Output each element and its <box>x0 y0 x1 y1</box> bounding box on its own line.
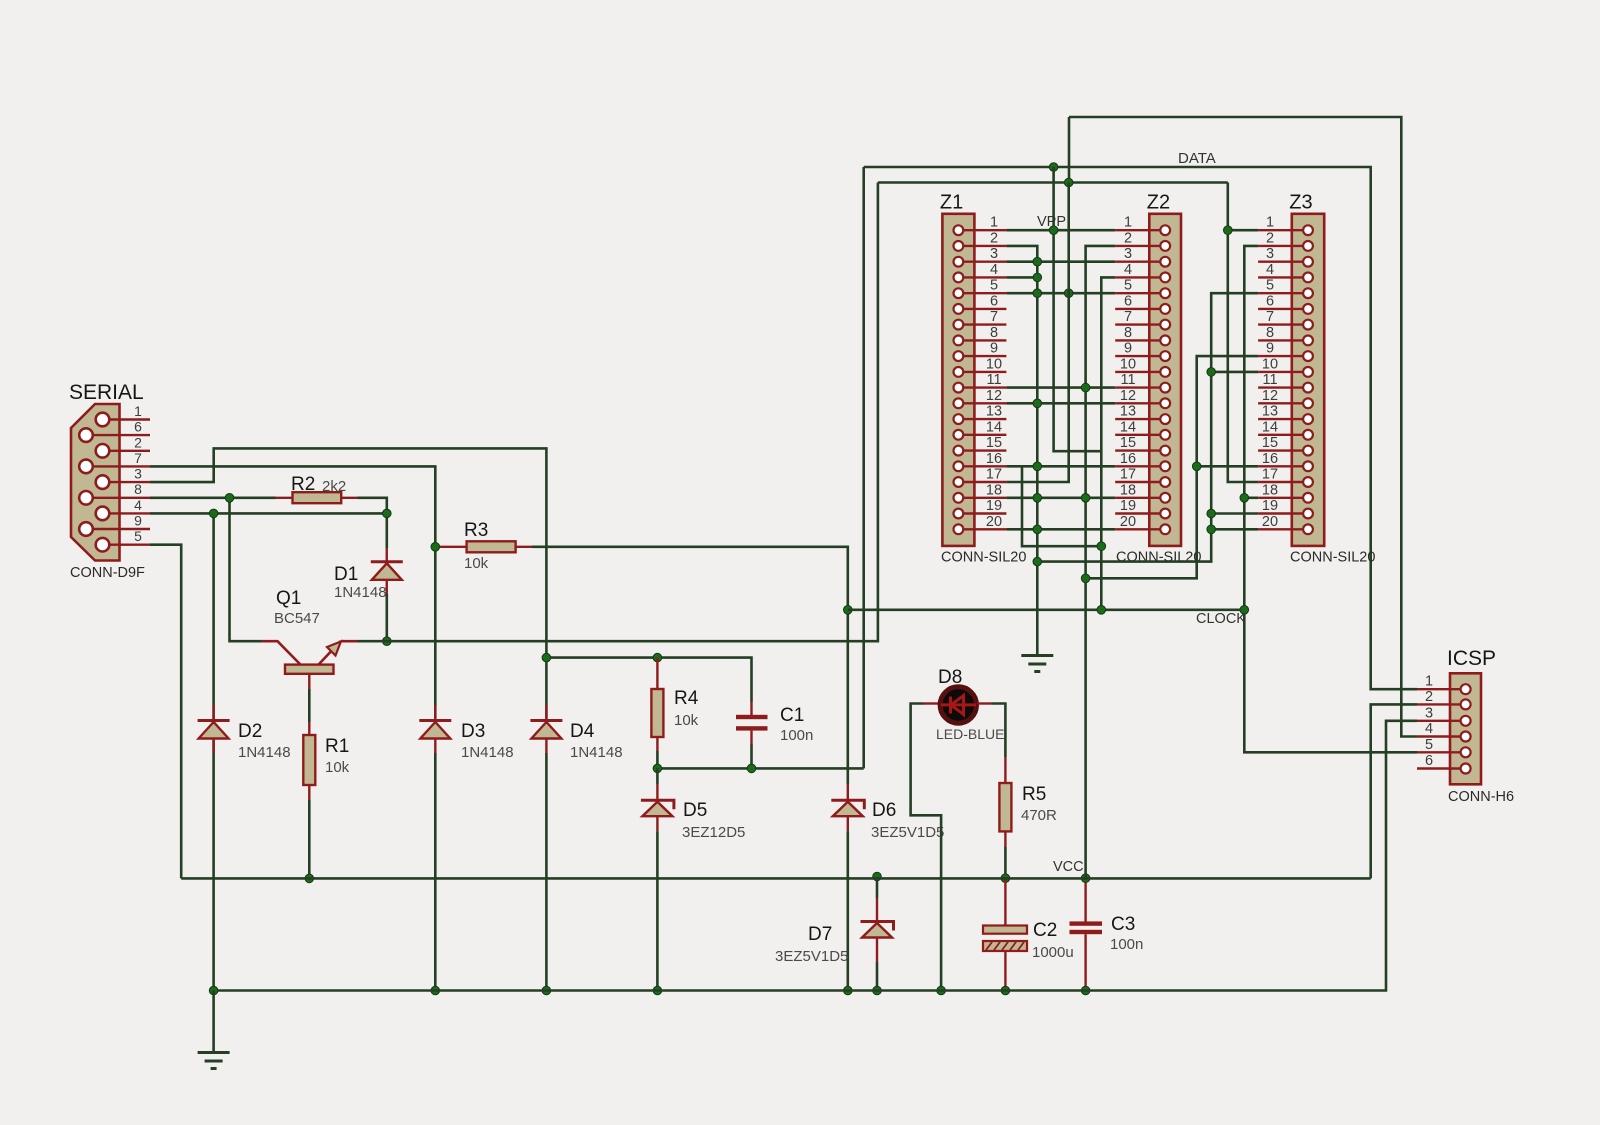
pin 11 of Z2 <box>1115 386 1165 388</box>
wire Z1 pin3 row <box>1006 260 1115 263</box>
pin 3 of Z3 <box>1258 261 1308 263</box>
svg-text:15: 15 <box>986 435 1002 451</box>
svg-text:3: 3 <box>990 246 998 262</box>
svg-text:D2: D2 <box>238 721 262 742</box>
ground symbol below Z1 <box>1021 656 1053 672</box>
junction pin4/D2 column <box>209 509 218 518</box>
pin 3 of Z1 <box>958 261 1006 263</box>
pin 12 of Z3 <box>1258 402 1308 404</box>
svg-text:19: 19 <box>1262 498 1278 514</box>
junction column1101/row546 <box>1097 542 1106 551</box>
capacitor C3 100n <box>1084 878 1086 921</box>
svg-text:18: 18 <box>986 482 1002 498</box>
svg-text:DATA: DATA <box>1178 150 1216 167</box>
svg-text:17: 17 <box>1262 467 1278 483</box>
svg-text:12: 12 <box>1120 388 1136 404</box>
svg-text:1: 1 <box>990 215 998 231</box>
junction C1 bottom <box>747 764 756 773</box>
wire Z1 pin5 row <box>1006 292 1115 295</box>
junction D7/bottom rail <box>873 986 882 995</box>
svg-text:D6: D6 <box>872 800 896 821</box>
wire Z3 pin1 column from top net <box>1228 183 1258 483</box>
pin 1 of ICSP connector <box>1417 688 1466 690</box>
svg-text:ICSP: ICSP <box>1447 647 1496 670</box>
junction R1/VCC rail <box>305 874 314 883</box>
pin 17 of Z3 <box>1258 481 1308 483</box>
pin 18 of Z2 <box>1115 497 1165 499</box>
svg-text:1N4148: 1N4148 <box>334 584 387 601</box>
svg-text:2: 2 <box>1425 689 1433 705</box>
pin 19 of Z2 <box>1115 512 1165 514</box>
wire second top net <box>878 181 1228 184</box>
wire Z1 pin2 to ground column <box>1006 246 1037 655</box>
wire pin16 branch down <box>1022 466 1101 546</box>
svg-text:C3: C3 <box>1111 914 1135 935</box>
wire Z3 pin10 row <box>1211 371 1258 374</box>
svg-text:470R: 470R <box>1021 807 1057 824</box>
svg-text:1N4148: 1N4148 <box>238 744 291 761</box>
wire R2 right to D1 top <box>358 498 387 548</box>
svg-text:6: 6 <box>1425 753 1433 769</box>
junction pin18/ground column <box>1033 494 1042 503</box>
svg-text:9: 9 <box>1124 341 1132 357</box>
svg-text:11: 11 <box>1262 372 1277 388</box>
pin 6 of SERIAL connector <box>86 434 150 436</box>
pin 6 of ICSP connector <box>1417 767 1466 769</box>
wire Z3 pin18 row <box>1244 496 1258 499</box>
capacitor C1 100n <box>750 702 752 715</box>
junction CLOCK row/CLOCK column <box>1240 606 1249 615</box>
svg-text:10k: 10k <box>674 712 699 729</box>
svg-text:D8: D8 <box>938 667 962 688</box>
svg-text:3EZ5V1D5: 3EZ5V1D5 <box>871 824 944 841</box>
pin 1 of Z3 <box>1258 229 1308 231</box>
junction Z3 pin18/CLOCK column <box>1240 494 1249 503</box>
svg-text:15: 15 <box>1120 435 1136 451</box>
resistor R2 <box>276 497 358 499</box>
wire Z1 pin4 row <box>1006 276 1037 279</box>
ground symbol bottom left <box>212 991 215 1053</box>
junction pin5/ground column <box>1033 289 1042 298</box>
svg-text:2: 2 <box>1266 230 1274 246</box>
svg-text:100n: 100n <box>780 727 813 744</box>
junction D3/bottom rail <box>431 986 440 995</box>
diode D3 1N4148 <box>434 705 436 719</box>
zener diode D7 3EZ5V1D5 <box>876 877 879 899</box>
pin 8 of SERIAL connector <box>86 497 150 499</box>
svg-text:8: 8 <box>990 325 998 341</box>
svg-text:D3: D3 <box>461 721 485 742</box>
pin 19 of Z1 <box>958 512 1006 514</box>
pin 9 of SERIAL connector <box>86 528 150 530</box>
pin 7 of Z2 <box>1115 323 1165 325</box>
svg-text:8: 8 <box>1266 325 1274 341</box>
junction C3/bottom rail <box>1081 986 1090 995</box>
pin 4 of Z2 <box>1115 276 1165 278</box>
junction pin18/column 1085 <box>1081 494 1090 503</box>
pin 10 of Z2 <box>1115 371 1165 373</box>
wire R4 bottom row <box>656 751 659 768</box>
diode D2 1N4148 <box>212 705 214 719</box>
svg-text:R4: R4 <box>674 688 699 709</box>
svg-text:R3: R3 <box>464 520 488 541</box>
svg-text:5: 5 <box>1124 278 1132 294</box>
svg-text:10k: 10k <box>325 759 350 776</box>
junction D5/bottom rail <box>653 986 662 995</box>
svg-text:19: 19 <box>986 498 1002 514</box>
svg-text:BC547: BC547 <box>274 610 320 627</box>
pin 2 of Z1 <box>958 245 1006 247</box>
pin 2 of SERIAL connector <box>103 450 151 452</box>
pin 6 of Z3 <box>1258 308 1308 310</box>
svg-text:CONN-H6: CONN-H6 <box>1448 789 1514 805</box>
wire LED left loop <box>911 704 942 991</box>
svg-text:VCC: VCC <box>1053 859 1084 875</box>
wire Z3 pin16 row <box>1197 465 1258 468</box>
pin 16 of Z3 <box>1258 465 1308 467</box>
wire serial pin8 net to R2 and Q1 collector <box>150 496 276 499</box>
junction pin11/column 1085 <box>1081 383 1090 392</box>
junction LED loop/bottom rail <box>937 986 946 995</box>
svg-text:CONN-SIL20: CONN-SIL20 <box>1116 550 1201 566</box>
wire Z column 1068 pin17 link <box>1006 183 1068 483</box>
svg-text:Z2: Z2 <box>1147 192 1170 214</box>
svg-text:6: 6 <box>1124 293 1132 309</box>
svg-text:CONN-D9F: CONN-D9F <box>70 565 145 581</box>
svg-text:13: 13 <box>986 404 1002 420</box>
pin 18 of Z3 <box>1258 497 1308 499</box>
wire ground row 561 <box>1037 293 1258 561</box>
svg-text:20: 20 <box>1262 514 1278 530</box>
wire Q1 base to R1 <box>308 689 311 722</box>
svg-text:1N4148: 1N4148 <box>461 744 514 761</box>
wire row768 R4 C1 to DATA column <box>657 767 863 770</box>
svg-text:10: 10 <box>1262 356 1278 372</box>
wire serial pin3 net to D4 <box>150 448 546 718</box>
junction R4 bottom <box>653 764 662 773</box>
wire D5 bottom to bottom rail <box>656 831 659 990</box>
pin 1 of Z1 <box>958 229 1006 231</box>
wire VCC rail <box>181 877 1371 880</box>
svg-text:2: 2 <box>990 230 998 246</box>
pin 5 of SERIAL connector <box>103 544 151 546</box>
pin 13 of Z1 <box>958 418 1006 420</box>
svg-text:16: 16 <box>1120 451 1136 467</box>
pin 13 of Z2 <box>1115 418 1165 420</box>
wire node row to R4 and C1 <box>546 658 751 702</box>
svg-text:CONN-SIL20: CONN-SIL20 <box>1290 550 1375 566</box>
pin 10 of Z3 <box>1258 371 1308 373</box>
wire serial pin5 net to VCC rail <box>150 545 181 879</box>
svg-text:1: 1 <box>1425 674 1433 690</box>
svg-text:4: 4 <box>1266 262 1274 278</box>
junction pin8/Q1 collector <box>225 494 234 503</box>
svg-text:10: 10 <box>986 356 1002 372</box>
pin 7 of Z1 <box>958 323 1006 325</box>
svg-text:1: 1 <box>1124 215 1132 231</box>
junction D6/bottom rail <box>844 986 853 995</box>
junction CLOCK row/column1101 <box>1097 606 1106 615</box>
wire DATA net <box>864 167 1417 689</box>
svg-text:4: 4 <box>134 497 142 513</box>
pin 6 of Z1 <box>958 308 1006 310</box>
wire C1 bottom row <box>750 744 753 768</box>
pin 4 of SERIAL connector <box>103 512 151 514</box>
connector J2 ICSP CONN-H6 body <box>1450 673 1481 784</box>
wire Z1 pin16 row <box>1006 465 1115 468</box>
junction R4 top <box>653 653 662 662</box>
pin 7 of SERIAL connector <box>86 465 150 467</box>
svg-text:14: 14 <box>986 419 1002 435</box>
svg-text:11: 11 <box>986 372 1001 388</box>
wire Z1 pin11 row <box>1006 386 1115 389</box>
svg-text:5: 5 <box>1425 737 1433 753</box>
pin 11 of Z3 <box>1258 386 1308 388</box>
wire serial pin4 net to D2 <box>150 512 387 515</box>
wire ICSP pin2 to VCC rail <box>1371 704 1417 878</box>
svg-text:15: 15 <box>1262 435 1278 451</box>
svg-text:19: 19 <box>1120 498 1136 514</box>
pin 4 of Z1 <box>958 276 1006 278</box>
svg-text:1N4148: 1N4148 <box>570 744 623 761</box>
junction D1/Q1 emitter rail <box>383 637 392 646</box>
svg-text:10k: 10k <box>464 555 489 572</box>
svg-text:7: 7 <box>134 450 142 466</box>
capacitor C2 1000u <box>1004 878 1006 925</box>
svg-text:VPP: VPP <box>1037 214 1066 230</box>
pin 4 of Z3 <box>1258 276 1308 278</box>
connector Z2 CONN-SIL20 body <box>1149 214 1181 546</box>
junction Z3 pin19/column1211 <box>1207 509 1216 518</box>
svg-text:1: 1 <box>1266 215 1274 231</box>
pin 17 of Z2 <box>1115 481 1165 483</box>
svg-text:C2: C2 <box>1033 920 1057 941</box>
svg-text:18: 18 <box>1262 482 1278 498</box>
junction DATA/VPP column <box>1049 163 1058 172</box>
svg-text:7: 7 <box>1266 309 1274 325</box>
wire LED right to R5 <box>992 704 1006 758</box>
svg-text:C1: C1 <box>780 705 804 726</box>
svg-text:R2: R2 <box>291 474 315 495</box>
svg-text:8: 8 <box>1124 325 1132 341</box>
svg-text:D4: D4 <box>570 721 595 742</box>
diode D1 1N4148 <box>386 548 388 561</box>
svg-text:14: 14 <box>1120 419 1136 435</box>
svg-text:SERIAL: SERIAL <box>69 381 144 404</box>
pin 8 of Z2 <box>1115 339 1165 341</box>
pin 19 of Z3 <box>1258 512 1308 514</box>
wire bottom ground rail <box>214 721 1417 991</box>
svg-text:R1: R1 <box>325 736 349 757</box>
pin 14 of Z1 <box>958 434 1006 436</box>
pin 9 of Z1 <box>958 355 1006 357</box>
svg-text:20: 20 <box>986 514 1002 530</box>
pin 15 of Z3 <box>1258 449 1308 451</box>
svg-text:5: 5 <box>1266 278 1274 294</box>
wire VPP net Z1 pin1 to Z2 pin1 <box>1006 229 1115 232</box>
svg-text:3EZ5V1D5: 3EZ5V1D5 <box>775 948 848 965</box>
svg-text:D5: D5 <box>683 800 707 821</box>
pin 20 of Z2 <box>1115 528 1165 530</box>
wire D3 bottom to bottom rail <box>434 753 437 991</box>
pin 9 of Z3 <box>1258 355 1308 357</box>
pin 15 of Z1 <box>958 449 1006 451</box>
wire Z3 pin1 row <box>1228 229 1258 232</box>
wire Z1 pin18 row <box>1006 496 1115 499</box>
wire R5 bottom to VCC <box>1004 847 1007 878</box>
junction D4/bottom rail <box>542 986 551 995</box>
svg-text:Z1: Z1 <box>940 192 963 214</box>
svg-text:LED-BLUE: LED-BLUE <box>936 726 1004 742</box>
svg-text:1: 1 <box>134 403 142 419</box>
pin 5 of Z3 <box>1258 292 1308 294</box>
svg-text:2: 2 <box>134 434 142 450</box>
pin 9 of Z2 <box>1115 355 1165 357</box>
pin 8 of Z3 <box>1258 339 1308 341</box>
svg-text:CLOCK: CLOCK <box>1196 611 1246 627</box>
svg-text:3: 3 <box>1266 246 1274 262</box>
pin 16 of Z1 <box>958 465 1006 467</box>
resistor R5 <box>1004 757 1006 847</box>
svg-text:4: 4 <box>1425 721 1433 737</box>
svg-text:100n: 100n <box>1110 936 1143 953</box>
junction R5 C2 / VCC rail <box>1001 874 1010 883</box>
zener diode D6 3EZ5V1D5 <box>847 784 849 801</box>
wire D4 bottom to bottom rail <box>545 753 548 991</box>
junction column1085/row578 <box>1081 574 1090 583</box>
junction C3/VCC rail <box>1081 874 1090 883</box>
wire D6 bottom to bottom rail <box>846 831 849 990</box>
svg-text:5: 5 <box>134 528 142 544</box>
svg-text:9: 9 <box>134 513 142 529</box>
svg-text:18: 18 <box>1120 482 1136 498</box>
resistor R1 <box>308 722 310 800</box>
wire Z3 pin20 row <box>1211 528 1258 531</box>
svg-text:4: 4 <box>1124 262 1132 278</box>
svg-text:13: 13 <box>1120 404 1136 420</box>
pin 16 of Z2 <box>1115 465 1165 467</box>
pin 1 of SERIAL connector <box>103 418 151 420</box>
zener diode D5 3EZ12D5 <box>656 768 659 784</box>
junction pin3 column row657 <box>542 653 551 662</box>
svg-text:3: 3 <box>134 466 142 482</box>
junction pin3/ground column <box>1033 257 1042 266</box>
svg-text:12: 12 <box>986 388 1002 404</box>
svg-text:10: 10 <box>1120 356 1136 372</box>
svg-text:20: 20 <box>1120 514 1136 530</box>
junction C2/bottom rail <box>1001 986 1010 995</box>
junction top net/Z column <box>1064 178 1073 187</box>
connector J1 SERIAL CONN-D9F body <box>71 404 120 561</box>
pin 14 of Z2 <box>1115 434 1165 436</box>
svg-text:7: 7 <box>990 309 998 325</box>
svg-text:12: 12 <box>1262 388 1278 404</box>
junction pin16/ground column <box>1033 462 1042 471</box>
wire Z2 pin2 link <box>1086 246 1116 878</box>
wire R1 bottom to VCC rail <box>308 800 311 878</box>
svg-text:6: 6 <box>1266 293 1274 309</box>
pin 5 of ICSP connector <box>1417 751 1466 753</box>
pin 13 of Z3 <box>1258 418 1308 420</box>
svg-text:6: 6 <box>134 419 142 435</box>
svg-text:3: 3 <box>1425 705 1433 721</box>
wire D1 bottom to Q1 rail <box>385 594 388 641</box>
svg-text:Z3: Z3 <box>1289 192 1312 214</box>
svg-text:5: 5 <box>990 278 998 294</box>
junction R3 left / pin7 column <box>431 543 440 552</box>
svg-text:16: 16 <box>986 451 1002 467</box>
pin 20 of Z1 <box>958 528 1006 530</box>
svg-text:3EZ12D5: 3EZ12D5 <box>682 824 745 841</box>
pin 18 of Z1 <box>958 497 1006 499</box>
pin 14 of Z3 <box>1258 434 1308 436</box>
pin 5 of Z1 <box>958 292 1006 294</box>
junction Z3 pin10/column1211 <box>1207 368 1216 377</box>
pin 2 of ICSP connector <box>1417 703 1466 705</box>
resistor R3 <box>435 546 532 548</box>
junction pin12/ground column <box>1033 399 1042 408</box>
resistor R4 <box>656 658 658 751</box>
junction R3 column / CLOCK row <box>844 606 853 615</box>
svg-text:D1: D1 <box>334 564 358 585</box>
junction ground column/row561 <box>1033 557 1042 566</box>
pin 2 of Z2 <box>1115 245 1165 247</box>
pin 15 of Z2 <box>1115 449 1165 451</box>
wire row578 to Z3 pin9 <box>1086 356 1259 578</box>
svg-text:2k2: 2k2 <box>322 478 346 495</box>
svg-text:8: 8 <box>134 481 142 497</box>
svg-text:2: 2 <box>1124 230 1132 246</box>
pin 1 of Z2 <box>1115 229 1165 231</box>
junction Z3 pin16/column1196 <box>1192 462 1201 471</box>
svg-text:Q1: Q1 <box>276 588 301 609</box>
junction Z3 pin20/column1211 <box>1207 525 1216 534</box>
pin 2 of Z3 <box>1258 245 1308 247</box>
svg-text:16: 16 <box>1262 451 1278 467</box>
junction D7/VCC rail <box>873 872 882 881</box>
wire R3 right to CLOCK node and D6 <box>532 547 848 784</box>
wire Q1 emitter rail <box>358 183 878 642</box>
pin 17 of Z1 <box>958 481 1006 483</box>
svg-text:6: 6 <box>990 293 998 309</box>
wire serial pin7 net to R3 <box>150 466 435 718</box>
svg-text:13: 13 <box>1262 404 1278 420</box>
junction pin20/ground column <box>1033 525 1042 534</box>
svg-text:3: 3 <box>1124 246 1132 262</box>
transistor Q1 BC547 <box>262 641 358 664</box>
pin 12 of Z2 <box>1115 402 1165 404</box>
pin 12 of Z1 <box>958 402 1006 404</box>
junction D2 column/bottom rail <box>209 986 218 995</box>
connector Z3 CONN-SIL20 body <box>1292 214 1324 546</box>
junction pin5/Z column 1068 <box>1064 289 1073 298</box>
junction VPP/pin1 row <box>1049 226 1058 235</box>
svg-text:11: 11 <box>1120 372 1135 388</box>
pin 5 of Z2 <box>1115 292 1165 294</box>
svg-text:4: 4 <box>990 262 998 278</box>
pin 3 of SERIAL connector <box>103 481 151 483</box>
pin 20 of Z3 <box>1258 528 1308 530</box>
wire CLOCK row <box>848 608 1245 611</box>
wire Z3 pin19 row <box>1211 512 1258 515</box>
pin 8 of Z1 <box>958 339 1006 341</box>
wire Z1 pin20 row <box>1006 528 1115 531</box>
LED D8 LED-BLUE <box>924 702 940 704</box>
junction Z3 pin1/column1227 <box>1224 226 1233 235</box>
svg-text:CONN-SIL20: CONN-SIL20 <box>941 550 1026 566</box>
svg-text:9: 9 <box>990 341 998 357</box>
svg-text:9: 9 <box>1266 341 1274 357</box>
